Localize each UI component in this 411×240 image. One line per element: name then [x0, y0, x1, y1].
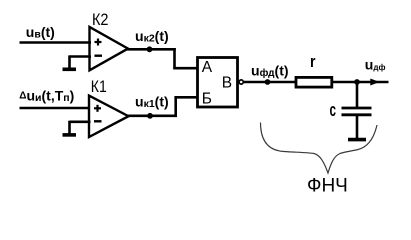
- node junction dot on uк1 wire: [147, 113, 153, 119]
- pin label Б: [202, 91, 212, 108]
- label К1: [91, 78, 107, 96]
- wire К2 output down to А input: [173, 48, 198, 68]
- wire К2 inverting input to ground: [70, 55, 92, 68]
- wire capacitor top: [356, 82, 359, 107]
- pin label А: [202, 59, 213, 76]
- label uк2(t): [135, 28, 169, 45]
- wire capacitor bottom to ground: [356, 115, 359, 138]
- ground symbol at capacitor: [348, 138, 366, 142]
- wire block output to resistor: [244, 81, 296, 84]
- svg-text:А: А: [202, 59, 213, 76]
- label Δuи(t,Tп) input signal: [19, 87, 74, 104]
- wire input Δuи to К1 noninverting input: [20, 107, 91, 110]
- logic block U1 (phase detector): [198, 58, 238, 108]
- brace under low-pass filter: [261, 123, 378, 174]
- label uфд(t): [251, 63, 289, 80]
- ground symbol at К2: [63, 68, 77, 72]
- resistor r: [296, 77, 332, 87]
- label uв(t) input signal: [26, 24, 55, 41]
- wire К1 inverting input to ground: [70, 121, 91, 134]
- ground symbol at К1: [63, 133, 77, 137]
- wire К2 output: [127, 48, 176, 51]
- wire К1 output: [128, 115, 178, 118]
- pin label В: [222, 75, 232, 92]
- op-amp comparator К2: [90, 27, 129, 70]
- wire resistor to output arrow: [333, 81, 389, 84]
- svg-text:ФНЧ: ФНЧ: [307, 176, 348, 197]
- svg-text:В: В: [222, 75, 232, 92]
- label ФНЧ: [307, 176, 348, 197]
- label r: [310, 52, 316, 71]
- label c: [330, 100, 337, 120]
- svg-text:c: c: [330, 100, 337, 120]
- op-amp comparator К1: [89, 96, 129, 137]
- output arrowhead: [370, 79, 379, 86]
- svg-text:Б: Б: [202, 91, 212, 108]
- label uдф output signal: [365, 56, 386, 72]
- svg-text:uв(t): uв(t): [26, 24, 55, 41]
- svg-text:К1: К1: [91, 78, 107, 96]
- label К2: [92, 11, 109, 29]
- inversion bubble at block output: [239, 80, 243, 84]
- label uк1(t): [135, 94, 169, 111]
- node junction dot at capacitor branch: [354, 79, 360, 85]
- capacitor c: [342, 108, 372, 115]
- wire К1 output up to Б input: [174, 97, 198, 117]
- svg-text:К2: К2: [92, 11, 109, 29]
- node junction dot on uк2 wire: [147, 46, 153, 52]
- node junction dot on uфд wire: [265, 79, 271, 85]
- wire input uв to К2 noninverting input: [20, 41, 92, 44]
- svg-text:r: r: [310, 52, 316, 71]
